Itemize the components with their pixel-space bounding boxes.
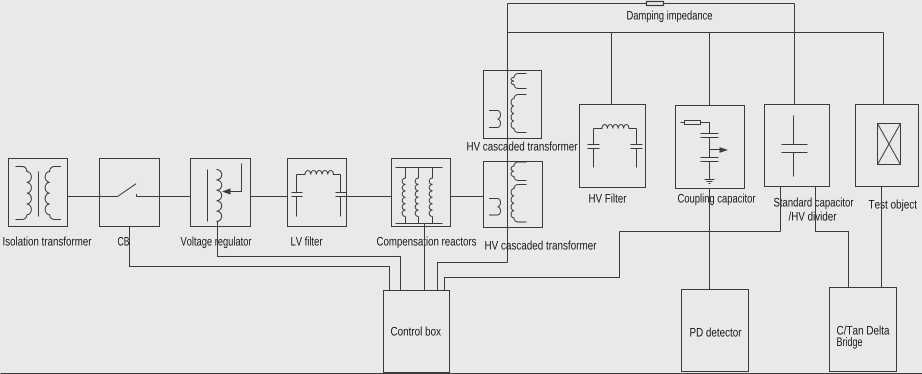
label HV divider: [789, 212, 837, 221]
label LV filter: [291, 237, 322, 246]
label PD detector: [690, 328, 741, 337]
transformer T1 secondary winding: [45, 166, 61, 219]
wire lower HV bus: [508, 32, 884, 34]
compensation reactors box: [392, 159, 451, 227]
label C/Tan Delta: [837, 326, 889, 335]
C Tan Delta bridge box: [830, 288, 897, 372]
wire measuring tap bus: [620, 231, 781, 233]
wire compensation reactors to HV cascaded transformer: [451, 196, 484, 198]
HV filter series inductor: [594, 124, 637, 128]
label Coupling capacitor: [678, 194, 755, 206]
transformer T1 primary winding: [16, 166, 32, 219]
LV filter series inductor: [297, 171, 341, 175]
HV filter box: [580, 105, 646, 188]
LV filter left capacitor: [292, 175, 303, 217]
wire compensation reactors to control box: [424, 224, 426, 291]
label HV cascaded transformer upper: [467, 142, 577, 151]
label HV Filter: [589, 194, 626, 203]
label CB: [118, 237, 129, 246]
capacitor C standard: [782, 116, 808, 177]
coupling capacitor tap arrow line: [710, 149, 721, 151]
wire vertical bus-to-cascade node: [507, 4, 509, 263]
label Test object: [869, 200, 917, 212]
transformer T3 secondary winding lower: [511, 185, 526, 223]
control box: [384, 291, 450, 373]
label HV cascaded transformer lower: [485, 241, 596, 250]
wire standard capacitor divider tap to bridge: [816, 187, 849, 288]
circuit breaker CB switch contact: [100, 184, 160, 197]
coupling capacitor lower capacitor: [701, 158, 719, 180]
test object box: [856, 105, 919, 187]
label Bridge: [837, 337, 862, 349]
wire measuring tap to control box: [445, 232, 620, 291]
voltage regulator winding: [217, 170, 222, 222]
label Voltage regulator: [181, 237, 252, 249]
label Compensation reactors: [377, 237, 476, 249]
transformer T1 core: [38, 172, 40, 217]
HV filter left capacitor: [588, 129, 600, 168]
circuit breaker CB box: [100, 159, 160, 227]
wire CB to control box: [130, 227, 390, 291]
wire test object to bridge: [881, 187, 883, 288]
wire voltage regulator to LV filter: [251, 196, 288, 198]
wire coupling capacitor to PD detector: [709, 189, 711, 290]
wire voltage regulator to control box: [218, 222, 401, 291]
wire ground bus along bottom: [1, 373, 922, 374]
voltage regulator tap feed wire: [231, 164, 242, 192]
wire isolation transformer to CB: [68, 196, 100, 198]
voltage regulator tap arrowhead: [222, 188, 231, 194]
wire cascade node to control box: [438, 263, 508, 291]
wire upper HV bus: [508, 3, 795, 5]
compensation reactor winding 2: [415, 168, 418, 224]
HV filter right capacitor: [631, 129, 643, 168]
voltage regulator core: [207, 170, 209, 222]
transformer T1 box (Isolation transformer): [9, 159, 68, 227]
label Control box: [391, 327, 441, 336]
wire bus to test object: [883, 33, 885, 105]
transformer T2 primary winding: [489, 111, 501, 128]
wire standard capacitor left tap: [780, 187, 782, 232]
transformer T3 secondary winding upper: [511, 162, 526, 181]
transformer T3 primary winding: [489, 199, 501, 216]
compensation reactors top bar: [396, 167, 443, 169]
ground symbol in coupling capacitor: [705, 180, 715, 184]
test object crossed rectangle: [878, 124, 901, 165]
standard capacitor box: [765, 105, 830, 187]
wire bus to HV filter: [611, 33, 613, 105]
coupling capacitor resistor leads: [681, 123, 710, 134]
resistor damping impedance: [647, 2, 664, 6]
voltage regulator box: [191, 159, 251, 227]
transformer T3 box (lower HV cascaded transformer): [484, 162, 543, 228]
LV filter right capacitor: [336, 175, 347, 217]
PD detector box: [682, 290, 749, 372]
transformer T2 box (upper HV cascaded transformer): [484, 71, 542, 139]
label Standard capacitor: [774, 198, 853, 210]
coupling capacitor tap arrowhead: [720, 147, 729, 153]
label Isolation transformer: [3, 237, 91, 246]
wire bus to coupling capacitor: [709, 33, 711, 106]
coupling capacitor internal resistor: [685, 121, 701, 125]
LV filter box: [288, 159, 347, 227]
label Damping impedance: [627, 11, 712, 23]
transformer T2 secondary winding upper: [511, 74, 526, 89]
compensation reactor winding 1: [402, 168, 405, 224]
compensation reactors bottom bar: [396, 223, 443, 225]
wire bus to standard capacitor: [794, 4, 796, 105]
coupling capacitor box: [676, 106, 745, 189]
compensation reactor winding 3: [429, 168, 432, 224]
coupling capacitor upper capacitor: [701, 134, 719, 158]
transformer T2 secondary winding lower: [511, 95, 526, 133]
wire LV filter to compensation reactors: [347, 196, 392, 198]
wire CB to voltage regulator: [160, 196, 191, 198]
